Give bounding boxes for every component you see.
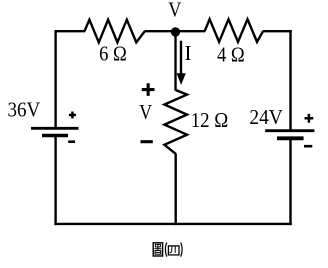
battery B2 24V short plate — [277, 136, 304, 140]
current arrow I shaft — [180, 41, 182, 76]
battery B2 24V long plate — [265, 129, 314, 132]
wire left vertical lower — [54, 136, 56, 226]
battery B1 36V long plate — [31, 127, 79, 130]
current arrow I head — [177, 73, 186, 85]
caption close paren — [181, 243, 183, 257]
label V polarity plus (12-ohm) — [142, 83, 155, 96]
svg-text:I: I — [185, 41, 192, 65]
svg-text:24V: 24V — [249, 105, 282, 129]
caption glyph 'tu' (figure) — [153, 243, 162, 256]
battery B1 minus sign — [68, 140, 75, 143]
node V junction dot — [171, 27, 180, 36]
wire middle vertical lower (12-ohm resistor to bottom wire) — [174, 154, 176, 226]
wire right vertical lower — [289, 138, 291, 225]
svg-text:12 Ω: 12 Ω — [191, 108, 229, 132]
svg-text:V: V — [139, 100, 152, 124]
svg-text:V: V — [168, 0, 181, 22]
svg-text:6 Ω: 6 Ω — [99, 42, 127, 66]
battery B2 minus sign — [304, 145, 312, 148]
wire right vertical upper — [289, 30, 291, 131]
battery B1 36V short plate — [42, 134, 68, 138]
wire top-middle horizontal — [145, 30, 206, 32]
wire top-right horizontal — [263, 30, 292, 32]
svg-text:36V: 36V — [8, 97, 41, 121]
wire middle vertical upper (node V to 12-ohm resistor) — [174, 32, 176, 91]
resistor R3 12-ohm vertical zigzag — [164, 90, 187, 154]
battery B1 plus sign — [69, 112, 76, 119]
resistor R1 6-ohm zigzag — [85, 20, 145, 43]
caption open paren — [165, 243, 167, 257]
battery B2 plus sign — [305, 114, 314, 123]
wire bottom horizontal — [54, 223, 291, 225]
label V polarity minus (12-ohm) — [141, 140, 153, 143]
caption glyph 'si' (four) — [168, 246, 179, 255]
wire top-left horizontal — [56, 30, 85, 32]
wire left vertical upper — [54, 30, 56, 128]
svg-text:4 Ω: 4 Ω — [217, 43, 245, 67]
resistor R2 4-ohm zigzag — [205, 19, 263, 42]
